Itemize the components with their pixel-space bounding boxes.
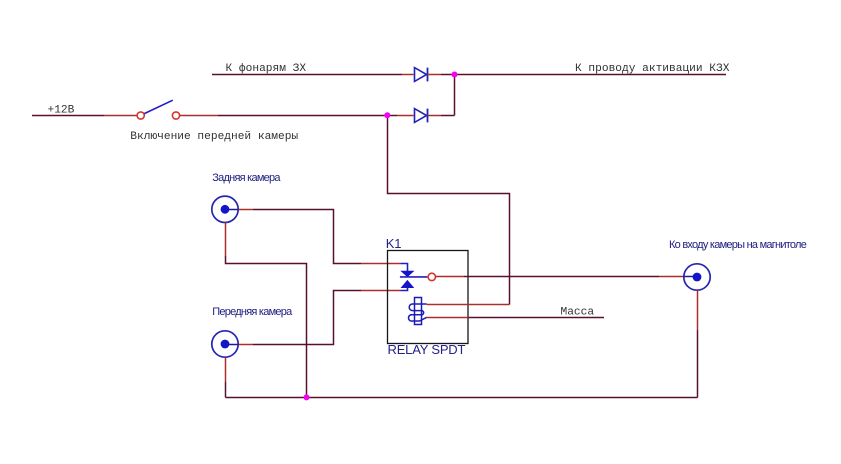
svg-text:К проводу активации КЗХ: К проводу активации КЗХ [575,63,730,75]
svg-text:Ко входу камеры на магнитоле: Ко входу камеры на магнитоле [669,239,807,251]
wire: X1 signal to relay contact NC [253,210,361,264]
wire: reverse-lights feed to D1 anode [212,74,402,76]
relay K1 contact: NO elbow [400,287,407,290]
node J3 junction on ground bus [304,394,310,400]
wire: switch to node J2 [218,115,388,117]
pin: X1 shield [225,223,227,257]
wire: X2 signal to relay contact NO [253,291,361,345]
svg-text:K1: K1 [386,236,402,251]
pin: D2 anode [397,115,414,117]
connector X2 front camera RCA [212,331,238,357]
wire: J2 down and over to relay coil pin 1 [388,116,510,305]
relay K1 contact: blade [400,276,428,278]
wire: X2 shield to ground bus [225,382,227,398]
relay K1 body [388,251,469,344]
wire: J2 to D2 anode pin [388,115,398,117]
pin: D1 cathode [428,74,442,76]
wire: D2 cathode to riser corner [441,115,455,117]
switch S1 [137,100,180,119]
wire: vertical J1 down to D2 output [454,75,456,116]
relay K1 contact: NO triangle [402,281,414,288]
wire: X1 shield to ground bus [226,256,307,398]
wire: coil 2 to Масса [468,317,604,319]
wire: D1 cathode to node J1 [441,74,455,76]
svg-text:RELAY SPDT: RELAY SPDT [388,342,466,357]
diode D2 [415,109,428,123]
wire: K1 common to head-unit connector [464,276,659,278]
relay K1 coil core [415,298,422,325]
relay K1 contact: NC elbow [400,264,407,272]
svg-text:Масса: Масса [561,306,595,318]
pin: D2 cathode [428,115,442,117]
pin: S1 left [104,115,137,117]
relay K1 contact: common terminal circle [428,273,435,280]
svg-text:К фонарям ЗХ: К фонарям ЗХ [226,62,307,75]
pin: K1 contact 2 [361,290,400,292]
svg-text:Передняя камера: Передняя камера [212,306,293,318]
pin: K1 contact 1 [361,263,400,265]
wire: X3 shield down to ground bus [697,330,699,398]
node J2 junction [384,112,390,118]
pin: S1 right [180,115,218,117]
pin: X2 signal [229,344,239,346]
pin: X2 shield [225,357,227,382]
relay K1 coil winding [409,304,427,321]
pin: K1 coil 2 [427,317,469,319]
diode D1 [415,68,428,82]
connector X1 rear camera RCA [212,196,238,222]
svg-text:Задняя камера: Задняя камера [212,172,281,184]
relay K1 contact: NC triangle [402,271,414,276]
pin: X3 inner lead [684,276,694,278]
pin: K1 common [436,276,465,278]
wire: +12V feed to switch S1 [32,115,104,117]
pin: X1 signal [229,209,239,211]
svg-text:Включение передней камеры: Включение передней камеры [130,131,298,143]
pin: X3 shield [697,290,699,330]
wire: ground bus [226,397,698,399]
connector X3 head-unit RCA [684,264,710,290]
node J1 junction [452,72,458,78]
pin: K1 coil 1 [427,304,510,306]
wire: node J1 to KZX activation output [455,74,727,76]
pin: X3 signal [659,276,684,278]
pin: D1 anode [402,74,414,76]
